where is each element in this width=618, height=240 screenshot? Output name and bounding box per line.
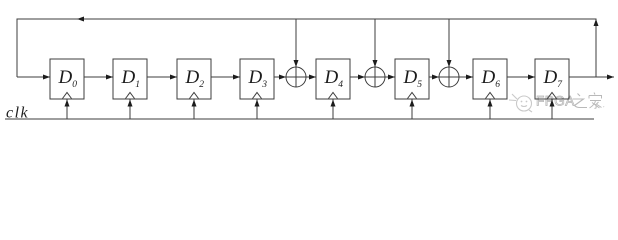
svg-text:clk: clk: [6, 105, 29, 122]
